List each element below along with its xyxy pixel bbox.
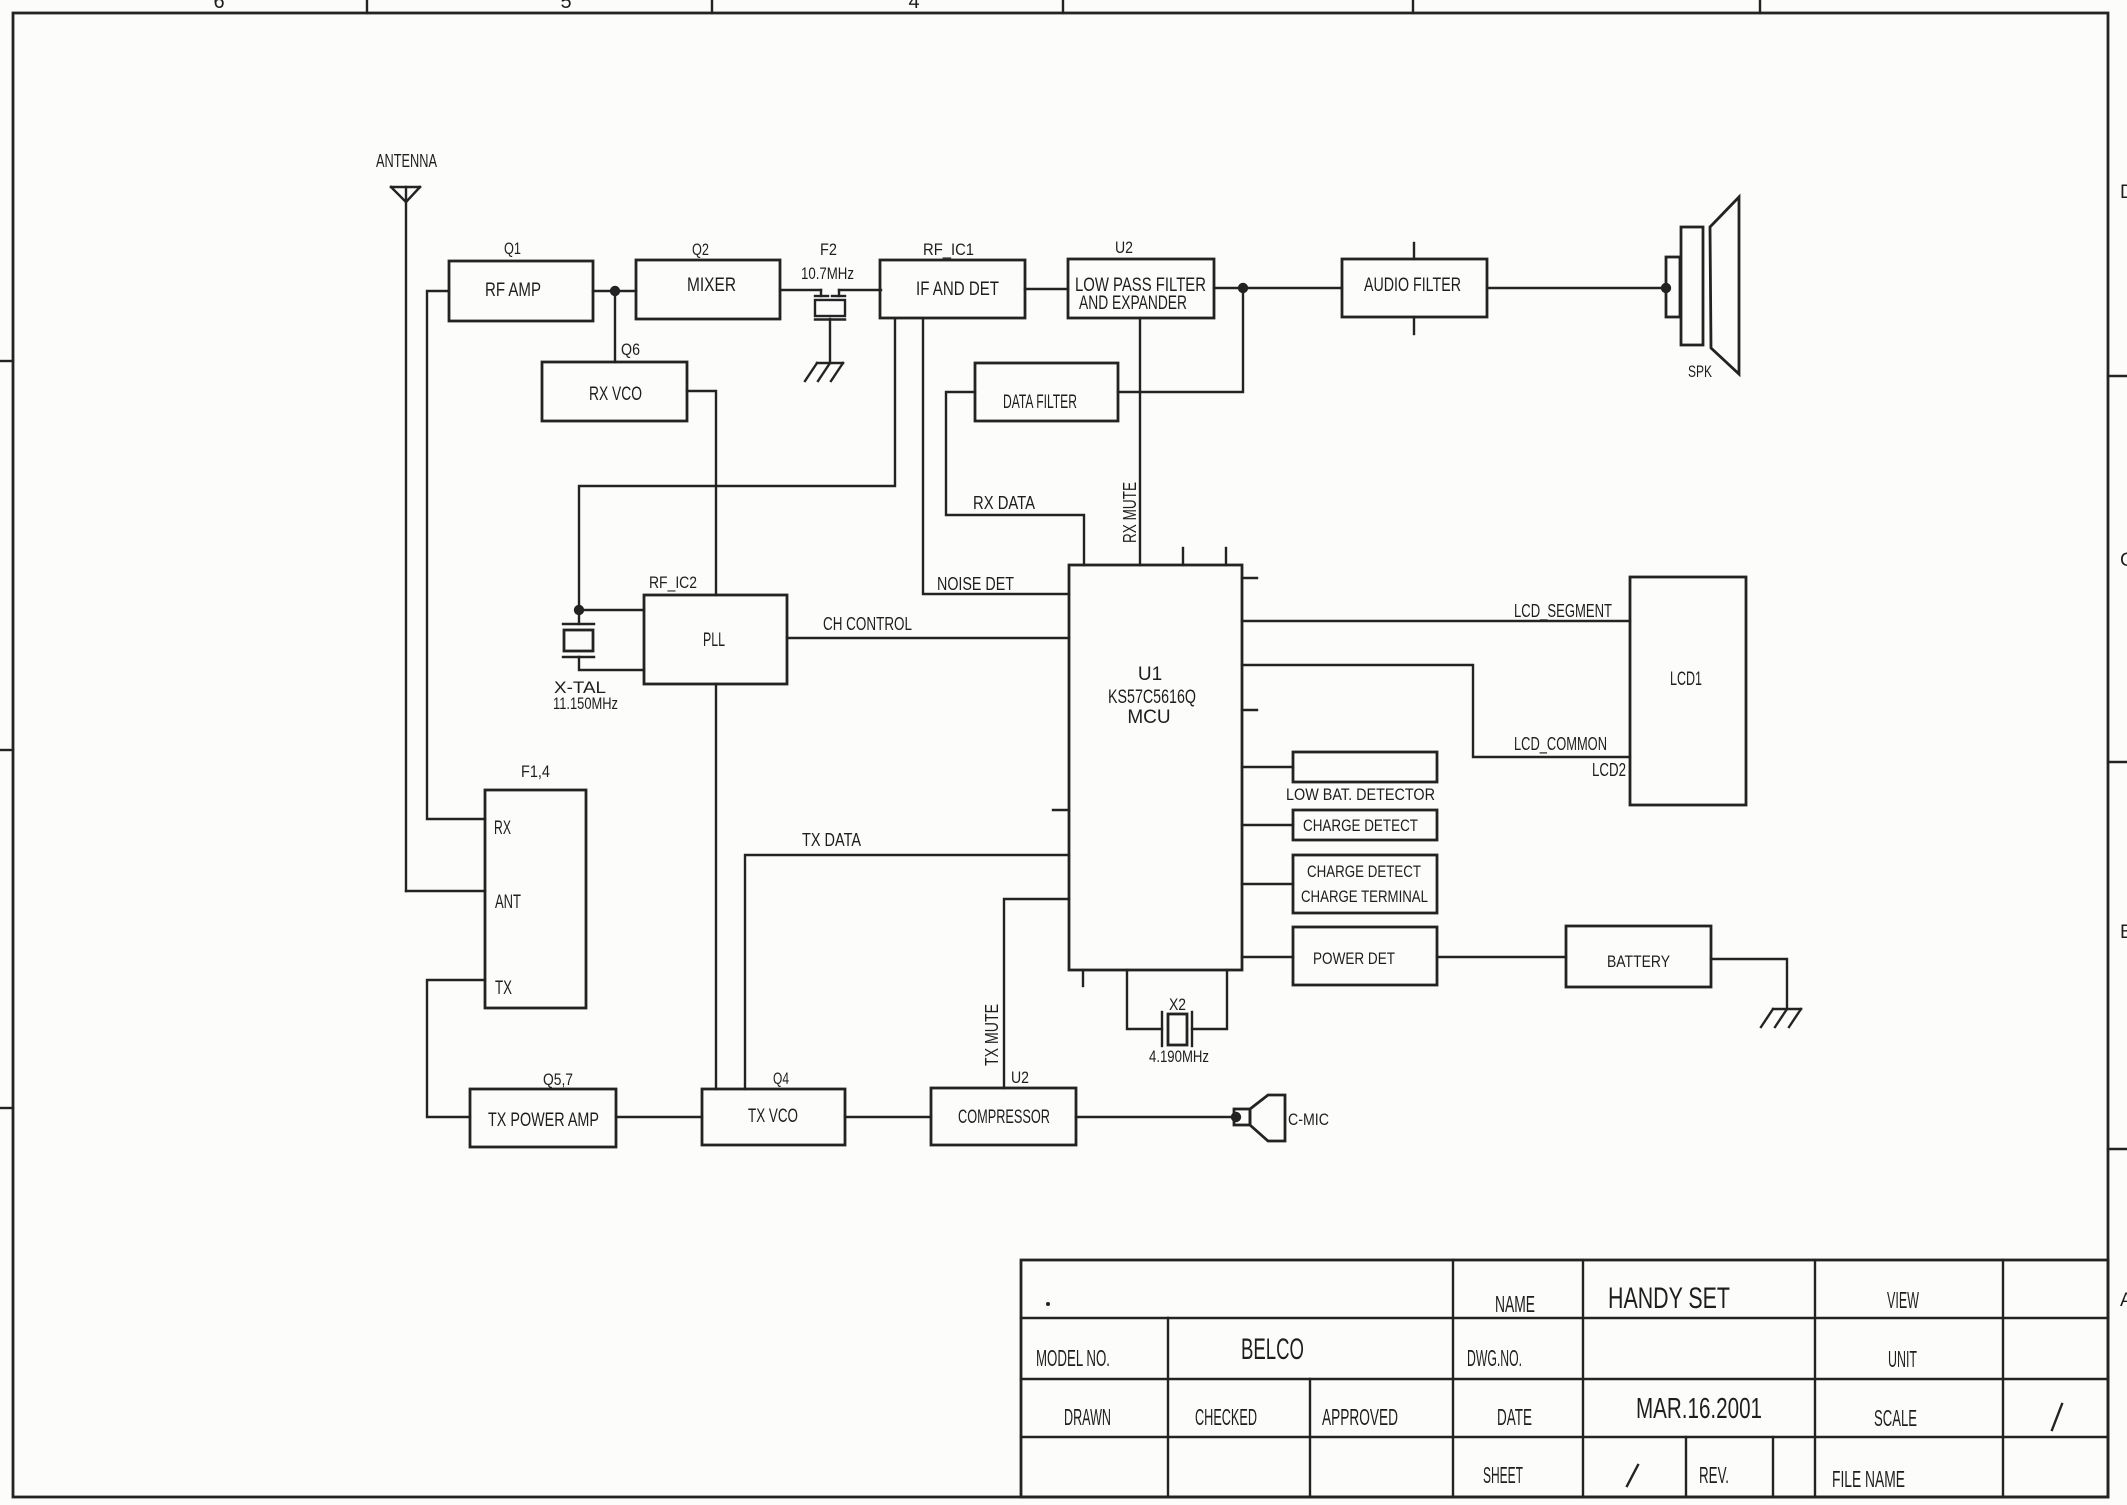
wire AUDIO FILTER to speaker: [1487, 287, 1666, 289]
right zone tick 3: [2108, 1148, 2127, 1150]
wire MCU to X2 left: [1127, 970, 1162, 1029]
svg-text:VIEW: VIEW: [1887, 1287, 1919, 1313]
node junction after expander: [1238, 283, 1248, 293]
title mark dot: [1046, 1302, 1050, 1306]
wire junction down to DATA FILTER: [1118, 288, 1243, 392]
ceramic filter F2 symbol: [815, 290, 845, 320]
block POWER DET: [1293, 927, 1437, 985]
title block column line d: [1582, 1260, 1584, 1497]
block Q1 RF AMP: [449, 261, 593, 321]
microphone C-MIC symbol: [1234, 1095, 1285, 1141]
wire node to crystal top: [578, 610, 580, 624]
wire IF AND DET to LOW PASS FILTER: [1025, 288, 1068, 290]
pin stub U1 top 2: [1225, 548, 1227, 565]
wire TX VCO to TX POWER AMP: [616, 1116, 702, 1118]
svg-text:CHARGE TERMINAL: CHARGE TERMINAL: [1301, 887, 1428, 906]
svg-text:Q5,7: Q5,7: [543, 1070, 573, 1089]
pin stub U1 left: [1053, 809, 1069, 811]
wire junction down to RX VCO: [614, 291, 616, 362]
title block row line 3: [1021, 1436, 2108, 1438]
svg-text:ANT: ANT: [495, 892, 521, 913]
top zone tick 1: [366, 0, 368, 13]
wire COMPRESSOR to microphone: [1076, 1116, 1234, 1118]
crystal X-TAL symbol: [563, 624, 594, 657]
svg-text:11.150MHz: 11.150MHz: [553, 694, 618, 713]
svg-text:C-MIC: C-MIC: [1288, 1110, 1329, 1129]
wire TX port to TX POWER AMP: [427, 980, 485, 1117]
pin stub U1 top 1: [1182, 548, 1184, 565]
title sheet slash: [1627, 1465, 1638, 1486]
wire F2 to IF AND DET: [839, 289, 881, 291]
mcu U1 KS57C5616Q: [1069, 565, 1242, 970]
top zone tick 5: [1759, 0, 1761, 13]
svg-text:APPROVED: APPROVED: [1322, 1404, 1398, 1430]
wire IF AND DET down-left to X-TAL node: [579, 319, 895, 610]
pin stub U1 right 1: [1242, 577, 1257, 579]
wire PLL bottom to TX VCO: [715, 684, 717, 1089]
wire RX VCO to PLL top: [687, 391, 716, 595]
svg-text:Q1: Q1: [504, 239, 521, 258]
svg-text:BATTERY: BATTERY: [1607, 952, 1670, 971]
title block column line b: [1309, 1379, 1311, 1497]
svg-text:SPK: SPK: [1688, 362, 1712, 381]
svg-text:LCD_SEGMENT: LCD_SEGMENT: [1514, 601, 1612, 622]
svg-text:DRAWN: DRAWN: [1064, 1404, 1111, 1430]
wire MCU to LOW BAT. DETECTOR: [1242, 766, 1293, 768]
title block column line h: [2002, 1260, 2004, 1497]
svg-text:CHARGE DETECT: CHARGE DETECT: [1307, 862, 1421, 881]
wire TX MUTE MCU to COMPRESSOR: [1004, 899, 1069, 1088]
svg-text:NAME: NAME: [1495, 1291, 1535, 1317]
wire LOW PASS FILTER to AUDIO FILTER: [1214, 287, 1342, 289]
svg-text:U2: U2: [1011, 1068, 1029, 1087]
svg-text:Q2: Q2: [692, 240, 709, 259]
svg-text:MODEL NO.: MODEL NO.: [1036, 1345, 1110, 1371]
top zone tick 4: [1412, 0, 1414, 13]
svg-text:MIXER: MIXER: [687, 275, 736, 296]
wire IF AND DET down to NOISE DET input of MCU: [923, 319, 1069, 594]
stub below AUDIO FILTER: [1413, 317, 1415, 334]
top zone tick 2: [711, 0, 713, 13]
block Q6 RX VCO: [542, 362, 687, 421]
right zone tick 2: [2108, 761, 2127, 763]
block BATTERY: [1566, 926, 1711, 987]
svg-text:RX DATA: RX DATA: [973, 493, 1035, 513]
block LOW BAT. DETECTOR: [1293, 752, 1437, 782]
wire LCD_COMMON MCU to LCD1: [1242, 665, 1630, 757]
svg-text:B: B: [2120, 922, 2127, 943]
right zone tick 1: [2108, 375, 2127, 377]
wire LCD_SEGMENT MCU to LCD1: [1242, 620, 1630, 622]
svg-text:KS57C5616Q: KS57C5616Q: [1108, 687, 1196, 708]
svg-text:NOISE DET: NOISE DET: [937, 574, 1014, 594]
block CHARGE DETECT CHARGE TERMINAL: [1293, 855, 1437, 913]
wire ANT port: [406, 890, 485, 892]
title scale slash: [2052, 1404, 2062, 1430]
left zone tick 3: [0, 1107, 13, 1109]
wire MIXER to F2: [780, 289, 821, 291]
wire CH CONTROL PLL to MCU: [787, 637, 1069, 639]
title block column line c: [1452, 1260, 1454, 1497]
svg-text:RX: RX: [494, 818, 511, 839]
wire MCU to CHARGE DETECT CHARGE TERMINAL: [1242, 883, 1293, 885]
svg-text:DATA FILTER: DATA FILTER: [1003, 392, 1077, 413]
block F1,4 duplexer: [485, 790, 586, 1008]
svg-text:RX VCO: RX VCO: [589, 384, 642, 405]
wire DATA FILTER to MCU (RX DATA): [946, 392, 1084, 565]
wire F2 to ground: [829, 319, 831, 363]
svg-text:RF_IC1: RF_IC1: [923, 240, 974, 259]
block Q5,7 TX POWER AMP: [470, 1089, 616, 1147]
ground at F2: [805, 363, 843, 381]
svg-text:CHECKED: CHECKED: [1195, 1404, 1257, 1430]
svg-text:SCALE: SCALE: [1874, 1405, 1917, 1431]
svg-text:LCD1: LCD1: [1670, 669, 1702, 690]
node junction at RF AMP output: [610, 286, 620, 296]
title block column line f: [1772, 1437, 1774, 1497]
ground at BATTERY: [1761, 1009, 1801, 1027]
title block row line 2: [1021, 1378, 2108, 1380]
svg-text:IF AND DET: IF AND DET: [916, 279, 999, 300]
node junction at speaker: [1661, 283, 1671, 293]
wire POWER DET to BATTERY: [1437, 956, 1566, 958]
svg-text:U1: U1: [1138, 664, 1162, 685]
block CHARGE DETECT: [1293, 810, 1437, 840]
wire node to PLL input: [579, 609, 644, 611]
svg-text:RF_IC2: RF_IC2: [649, 573, 697, 592]
svg-text:X2: X2: [1169, 995, 1186, 1014]
svg-text:CHARGE DETECT: CHARGE DETECT: [1303, 816, 1418, 835]
svg-text:6: 6: [213, 0, 224, 13]
svg-text:LCD_COMMON: LCD_COMMON: [1514, 734, 1607, 755]
svg-text:COMPRESSOR: COMPRESSOR: [958, 1107, 1050, 1128]
svg-text:Q6: Q6: [621, 340, 640, 359]
title block column line g: [1814, 1260, 1816, 1497]
svg-text:4: 4: [908, 0, 919, 13]
block LCD1: [1630, 577, 1746, 805]
svg-text:HANDY SET: HANDY SET: [1608, 1282, 1730, 1315]
wire TX DATA MCU to TX VCO: [745, 855, 1069, 1089]
svg-text:RF AMP: RF AMP: [485, 280, 541, 301]
title block column line a: [1167, 1318, 1169, 1497]
wire RX port to RF AMP input: [427, 291, 485, 819]
svg-text:A: A: [2120, 1290, 2127, 1311]
svg-text:TX: TX: [495, 978, 512, 999]
left zone tick 1: [0, 360, 13, 362]
svg-text:LCD2: LCD2: [1592, 760, 1626, 780]
svg-text:Q4: Q4: [773, 1069, 789, 1088]
svg-text:D: D: [2120, 182, 2127, 203]
block RF_IC1 IF AND DET: [880, 260, 1025, 318]
wire BATTERY to ground: [1711, 959, 1787, 1009]
title block outer frame: [1021, 1260, 2108, 1497]
wire MCU to X2 right: [1192, 970, 1227, 1029]
top zone tick 3: [1062, 0, 1064, 13]
node junction at microphone: [1231, 1112, 1241, 1122]
wire MCU to POWER DET: [1242, 956, 1293, 958]
block RF_IC2 PLL: [644, 595, 787, 684]
svg-text:TX MUTE: TX MUTE: [982, 1004, 1002, 1066]
node junction at X-TAL: [574, 605, 584, 615]
svg-text:U2: U2: [1115, 238, 1133, 257]
svg-text:FILE NAME: FILE NAME: [1832, 1466, 1905, 1492]
pin stub U1 bottom: [1082, 970, 1084, 986]
svg-text:MAR.16.2001: MAR.16.2001: [1636, 1393, 1762, 1425]
svg-text:BELCO: BELCO: [1241, 1333, 1304, 1366]
svg-text:CH CONTROL: CH CONTROL: [823, 614, 912, 634]
svg-text:F2: F2: [820, 240, 837, 259]
antenna symbol: [391, 187, 420, 202]
svg-text:UNIT: UNIT: [1888, 1346, 1917, 1372]
svg-text:C: C: [2120, 550, 2127, 571]
wire RF AMP to MIXER: [593, 290, 636, 292]
svg-text:TX DATA: TX DATA: [802, 830, 861, 850]
svg-text:RX MUTE: RX MUTE: [1120, 482, 1140, 543]
svg-text:POWER DET: POWER DET: [1313, 949, 1395, 968]
svg-text:AUDIO FILTER: AUDIO FILTER: [1364, 275, 1461, 296]
wire COMPRESSOR to TX VCO: [845, 1116, 931, 1118]
block U2 COMPRESSOR: [931, 1088, 1076, 1145]
svg-text:DWG.NO.: DWG.NO.: [1467, 1345, 1522, 1371]
block DATA FILTER: [975, 363, 1118, 421]
antenna mast wire: [405, 187, 407, 891]
left zone tick 2: [0, 749, 13, 751]
svg-text:F1,4: F1,4: [521, 762, 550, 781]
block AUDIO FILTER: [1342, 259, 1487, 317]
svg-text:AND EXPANDER: AND EXPANDER: [1079, 293, 1187, 314]
wire RX MUTE expander to MCU: [1139, 318, 1141, 565]
svg-text:PLL: PLL: [703, 630, 725, 651]
svg-text:10.7MHz: 10.7MHz: [801, 264, 854, 283]
svg-text:DATE: DATE: [1497, 1404, 1532, 1430]
svg-text:TX VCO: TX VCO: [748, 1106, 798, 1127]
stub above AUDIO FILTER: [1413, 243, 1415, 259]
svg-text:TX POWER AMP: TX POWER AMP: [488, 1110, 599, 1131]
svg-text:5: 5: [560, 0, 571, 13]
block Q2 MIXER: [636, 260, 780, 319]
block Q4 TX VCO: [702, 1089, 845, 1145]
speaker SPK symbol: [1666, 197, 1739, 374]
wire MCU to CHARGE DETECT: [1242, 824, 1293, 826]
svg-text:4.190MHz: 4.190MHz: [1149, 1047, 1209, 1066]
title block row line 1: [1021, 1317, 2108, 1319]
svg-text:ANTENNA: ANTENNA: [376, 151, 437, 171]
svg-text:LOW BAT. DETECTOR: LOW BAT. DETECTOR: [1286, 785, 1435, 804]
svg-text:MCU: MCU: [1127, 707, 1170, 728]
svg-text:SHEET: SHEET: [1483, 1462, 1523, 1488]
pin stub U1 right 2: [1242, 709, 1257, 711]
title block column line e: [1685, 1437, 1687, 1497]
svg-text:REV.: REV.: [1699, 1462, 1729, 1488]
crystal X2 symbol: [1162, 1012, 1192, 1046]
block U2 LOW PASS FILTER AND EXPANDER: [1068, 259, 1214, 318]
wire crystal bottom to PLL: [579, 657, 644, 670]
